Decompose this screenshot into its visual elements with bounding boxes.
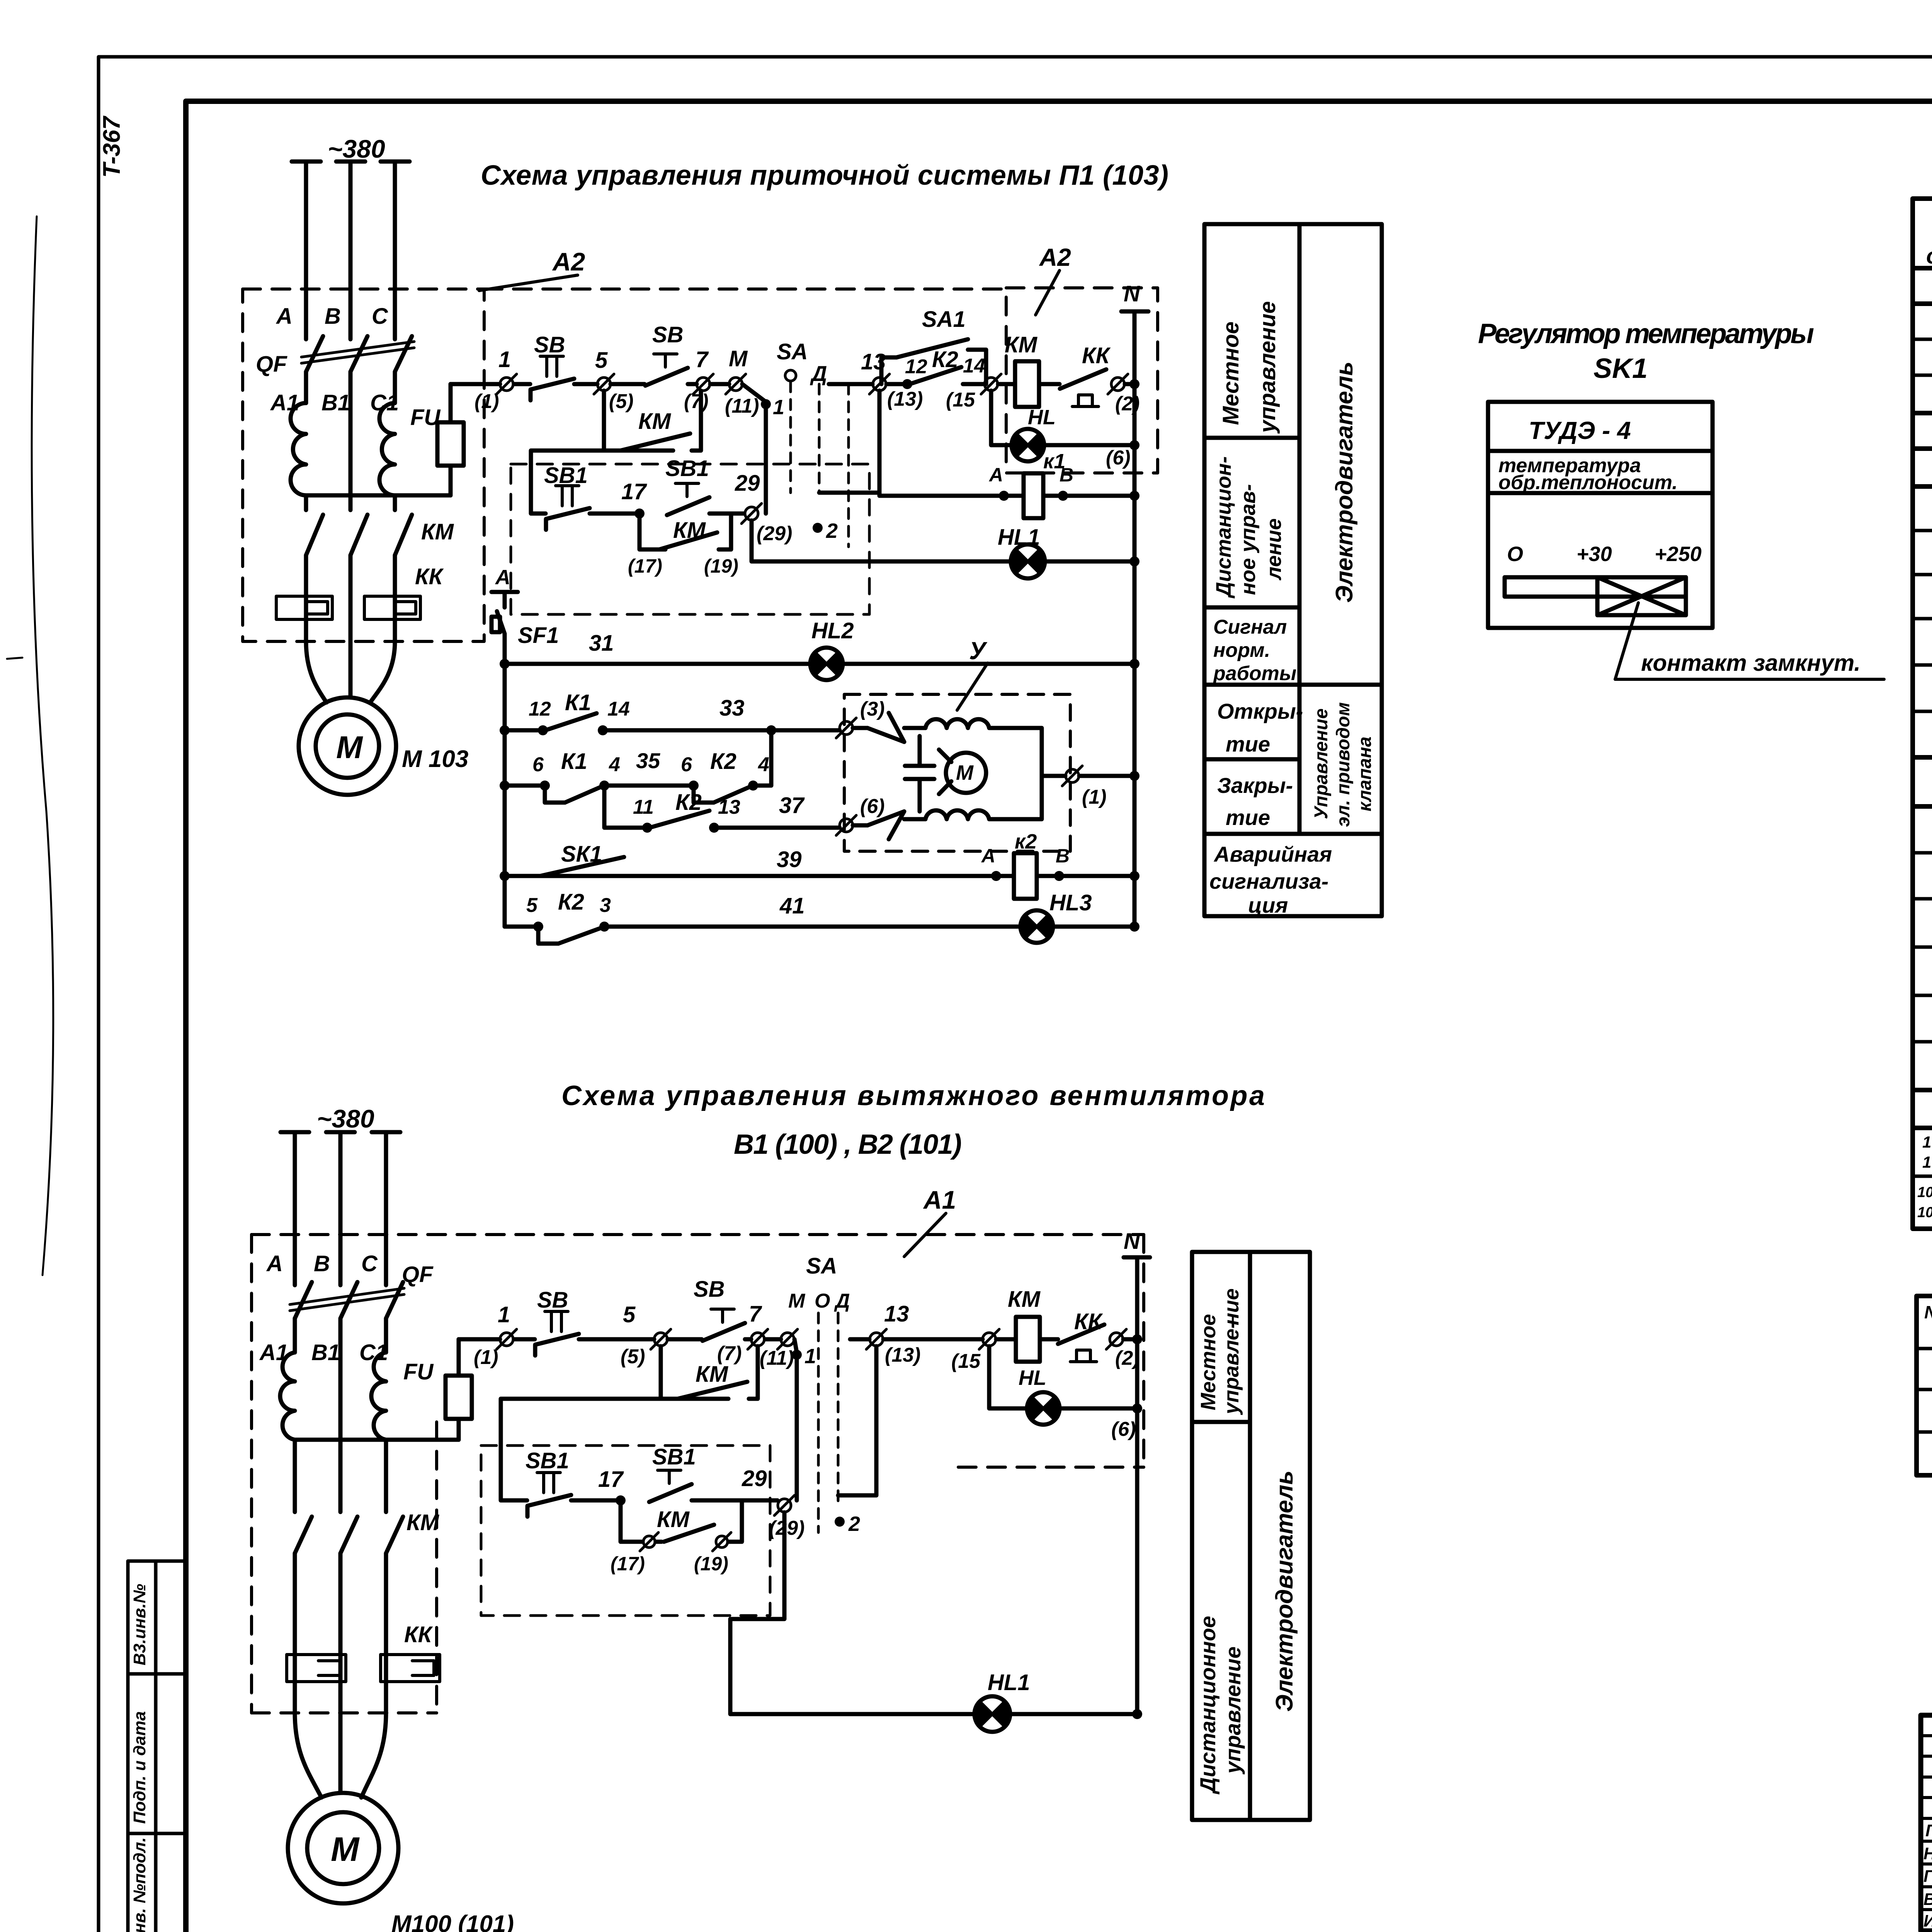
svg-text:В1: В1 (311, 1340, 340, 1365)
svg-text:N приво-: N приво- (1924, 1302, 1932, 1322)
svg-text:13: 13 (861, 349, 886, 374)
PKU post dashed outline (511, 464, 869, 614)
svg-text:(6): (6) (1111, 1418, 1136, 1440)
remote control feed wire (531, 451, 604, 514)
scale slider bar (1505, 577, 1686, 615)
svg-text:7: 7 (749, 1301, 762, 1327)
svg-text:13: 13 (718, 796, 740, 818)
svg-text:тие: тие (1226, 805, 1270, 830)
svg-text:обознач.: обознач. (1926, 243, 1932, 269)
svg-text:КМ: КМ (673, 518, 706, 543)
terminal 7 (bottom) (717, 1301, 768, 1365)
svg-text:Инв. №подл.: Инв. №подл. (130, 1837, 149, 1932)
svg-text:М: М (788, 1290, 806, 1312)
wire phase C vertical (bottom) (384, 1132, 388, 1713)
function table labels (supply) (1209, 301, 1375, 917)
svg-text:КМ: КМ (657, 1507, 690, 1532)
svg-text:КМ: КМ (638, 409, 672, 434)
wire (1039, 382, 1060, 386)
svg-text:SА1: SА1 (922, 307, 966, 332)
fuse FU (437, 384, 464, 495)
label FU (bottom) (403, 1359, 434, 1384)
svg-text:Подп. и дата: Подп. и дата (130, 1711, 149, 1824)
svg-text:В3.инв.№: В3.инв.№ (130, 1584, 149, 1665)
contact closed label (1641, 650, 1861, 676)
wire (998, 382, 1015, 386)
terminal 13 (861, 349, 923, 410)
regulator SK1 body (1488, 402, 1713, 628)
svg-text:К2: К2 (675, 790, 702, 815)
contactor coil KM (1005, 332, 1039, 407)
selector SA contact (777, 339, 827, 386)
wire row 37 K2 contact (604, 786, 840, 833)
svg-text:7: 7 (696, 347, 709, 372)
svg-text:Откры-: Откры- (1217, 699, 1303, 723)
thermal relay KK contact (bottom) (1058, 1309, 1104, 1362)
svg-text:А: А (981, 845, 995, 867)
svg-text:М: М (331, 1830, 360, 1868)
svg-text:К2: К2 (710, 749, 736, 774)
svg-text:(15: (15 (951, 1350, 981, 1372)
svg-text:КМ: КМ (406, 1510, 440, 1535)
label A1 with leader (904, 1185, 956, 1257)
svg-text:SВ: SВ (694, 1277, 725, 1302)
svg-text:Гл.спеч.: Гл.спеч. (1923, 1867, 1932, 1886)
pushbutton SB1 start (NO) (665, 456, 744, 515)
control box A1 dashed outline (252, 1235, 1144, 1713)
svg-text:6: 6 (532, 753, 544, 776)
motor leads (bottom) (295, 1713, 386, 1798)
svg-text:КМ: КМ (421, 519, 454, 544)
terminal (2) (1108, 374, 1140, 415)
contactor KM aux bypass contact (628, 514, 738, 577)
actuator lower limit contact (853, 811, 904, 839)
svg-text:ное управ-: ное управ- (1236, 484, 1260, 595)
small dashed box A2 (coil section) (1006, 288, 1158, 473)
svg-text:А: А (495, 566, 510, 589)
thermal relay KK heater phase C (364, 596, 420, 619)
svg-text:SВ1: SВ1 (665, 456, 709, 481)
svg-text:M100 (101): M100 (101) (391, 1911, 514, 1932)
svg-text:SF1: SF1 (518, 623, 559, 648)
node labels A B C (bottom) (266, 1251, 378, 1276)
terminal (2) (bottom) (1106, 1329, 1142, 1369)
svg-text:М: М (336, 730, 363, 765)
SA dashed position lines (791, 382, 849, 547)
svg-text:В: В (325, 304, 341, 329)
pushbutton SB start NO (bottom) (694, 1277, 745, 1341)
wire row 41 with lamp HL3 (505, 876, 1139, 944)
wire row 33 open circuit (505, 690, 840, 735)
svg-text:обр.теплоносит.: обр.теплоносит. (1498, 471, 1678, 494)
remote feed wire (bottom) (501, 1399, 661, 1500)
svg-text:Схема управления вытяжного: Схема управления вытяжного вентилятора (561, 1080, 1265, 1111)
svg-text:41: 41 (779, 893, 805, 918)
svg-text:FU: FU (403, 1359, 434, 1384)
node 17 (621, 479, 647, 519)
svg-text:КК: КК (415, 564, 444, 589)
svg-text:Местное: Местное (1218, 321, 1243, 425)
svg-text:М: М (729, 346, 748, 371)
motor M100(101) (288, 1793, 398, 1903)
svg-text:Электродвигатель: Электродвигатель (1331, 362, 1358, 603)
phase feed ticks (bottom) (281, 1130, 400, 1134)
pushbutton SB stop (NC) (531, 332, 574, 400)
svg-text:QF: QF (256, 352, 287, 377)
svg-text:(29): (29) (769, 1517, 804, 1539)
svg-text:37: 37 (779, 793, 805, 818)
relay contact K2 (NO) row1 (886, 347, 985, 389)
wire (571, 1498, 617, 1503)
svg-text:SВ1: SВ1 (526, 1448, 569, 1473)
wire phase B vertical (349, 162, 353, 641)
svg-text:29: 29 (742, 1466, 767, 1491)
thermal relay KK heater phase C (bottom) (381, 1655, 440, 1682)
svg-text:1: 1 (498, 347, 511, 372)
label KM main (bottom) (406, 1510, 440, 1535)
contact closed leader (1615, 603, 1884, 679)
contactor KM bypass contact (bottom) (611, 1500, 742, 1575)
svg-text:1: 1 (773, 396, 784, 419)
svg-text:103,SВ1: 103,SВ1 (1922, 1133, 1932, 1151)
label FU (410, 405, 441, 430)
thermal relay KK heater phase A (bottom) (287, 1655, 346, 1682)
title block inner grid (1921, 1715, 1932, 1931)
lamp HL1 row (bottom) (730, 1512, 1142, 1732)
circuit breaker QF poles (306, 336, 412, 372)
terminal 1 (bottom) (474, 1302, 517, 1369)
label M103 (402, 746, 468, 772)
svg-text:А: А (988, 464, 1003, 486)
svg-text:НL3: НL3 (1049, 890, 1092, 915)
function table (exhaust scheme) (1192, 1252, 1310, 1820)
svg-text:T-367: T-367 (99, 116, 125, 178)
scan artifact curve at far left (7, 216, 53, 1275)
svg-text:А: А (276, 304, 293, 329)
svg-text:SА: SА (806, 1253, 837, 1279)
svg-text:НL1: НL1 (998, 525, 1040, 550)
terminal 29 (735, 471, 792, 545)
svg-text:3: 3 (600, 894, 611, 917)
svg-text:(15: (15 (946, 389, 975, 411)
svg-text:В1 (100) , В2 (101): В1 (100) , В2 (101) (734, 1129, 962, 1160)
svg-text:17: 17 (621, 479, 647, 504)
net ~380 supply label (bottom) (317, 1104, 374, 1133)
thermal relay KK heater phase A (276, 596, 332, 619)
lamp HL local (991, 391, 1139, 469)
element list header (1926, 217, 1932, 269)
drives table grid (1917, 1296, 1932, 1475)
svg-text:В1: В1 (321, 390, 350, 415)
svg-text:(13): (13) (887, 388, 923, 410)
wire from 13 branch (bottom) (838, 1346, 876, 1495)
svg-text:норм.: норм. (1213, 639, 1270, 662)
pushbutton SB1 stop NC (bottom) (526, 1448, 571, 1517)
terminal (11) (bottom) (760, 1329, 798, 1369)
pushbutton SB1 start NO (bottom) (649, 1444, 777, 1502)
svg-text:Аварийная: Аварийная (1213, 842, 1332, 866)
label QF (256, 352, 287, 377)
node 17 (bottom) (598, 1467, 626, 1505)
terminal 5 (594, 348, 634, 413)
wire (574, 382, 597, 386)
thermal relay KK contact (1060, 343, 1111, 406)
svg-text:О: О (815, 1290, 830, 1312)
label SA1 (922, 307, 966, 332)
wire (688, 382, 697, 386)
svg-text:управление: управление (1221, 1646, 1245, 1775)
svg-text:29: 29 (735, 471, 760, 496)
svg-text:(17): (17) (611, 1553, 645, 1575)
svg-text:эл. приводом: эл. приводом (1333, 702, 1354, 827)
wire to N (1125, 379, 1139, 389)
document code T-367 rotated (99, 116, 125, 178)
svg-text:Нач. ЭТО: Нач. ЭТО (1923, 1844, 1932, 1863)
svg-text:(7): (7) (684, 390, 709, 413)
svg-text:А: А (266, 1251, 283, 1276)
svg-text:14: 14 (963, 355, 985, 377)
contactor coil KM (bottom) (996, 1287, 1058, 1362)
terminal 5 (bottom) (621, 1302, 671, 1368)
svg-text:НL: НL (1028, 406, 1056, 429)
actuator upper limit contact (853, 713, 904, 742)
node 1 junction (742, 384, 784, 514)
svg-text:ГАП: ГАП (1925, 1821, 1932, 1840)
svg-text:Д: Д (810, 361, 827, 386)
svg-text:А1: А1 (270, 390, 299, 415)
svg-text:(1): (1) (474, 1346, 498, 1369)
svg-text:(3): (3) (860, 698, 885, 720)
svg-text:31: 31 (589, 631, 614, 656)
svg-text:4: 4 (758, 753, 769, 776)
row PKU15-231 (1917, 1184, 1932, 1221)
svg-text:ление: ление (1262, 518, 1286, 581)
svg-text:О: О (1507, 543, 1523, 566)
terminal (15) (946, 374, 1001, 411)
svg-text:M 103: M 103 (402, 746, 468, 772)
element list table grid (1913, 199, 1932, 1229)
svg-text:НL1: НL1 (988, 1670, 1030, 1695)
svg-text:100 НL1, 101 НL1: 100 НL1, 101 НL1 (1917, 1204, 1932, 1221)
pushbutton SB start (NO) (645, 322, 688, 386)
selector switch SA1 bypass branch (881, 339, 986, 384)
wire phase A vertical (304, 162, 308, 641)
svg-text:N: N (1124, 281, 1140, 306)
wire (514, 1337, 535, 1342)
actuator lower winding (904, 776, 1042, 819)
svg-text:А2: А2 (552, 247, 585, 276)
svg-text:33: 33 (719, 696, 745, 721)
svg-text:НL: НL (1019, 1366, 1046, 1389)
svg-text:~380: ~380 (328, 134, 385, 163)
label A2 with leader (479, 247, 585, 291)
scale labels (1507, 543, 1702, 566)
svg-text:(11): (11) (725, 395, 759, 417)
svg-text:К2: К2 (558, 889, 584, 915)
motor M103 (299, 697, 396, 795)
svg-text:2: 2 (848, 1512, 860, 1536)
contactor KM main contacts (306, 515, 412, 555)
svg-text:тие: тие (1226, 732, 1270, 756)
node 2 junction (813, 519, 838, 543)
svg-text:(6): (6) (1106, 447, 1131, 469)
svg-text:управление: управление (1255, 301, 1280, 434)
pushbutton SB stop NC (bottom) (535, 1287, 579, 1355)
wire (745, 1337, 751, 1342)
svg-text:А1: А1 (923, 1185, 956, 1214)
contactor KM main contacts (bottom) (295, 1517, 403, 1553)
svg-text:(5): (5) (621, 1345, 645, 1368)
svg-text:5: 5 (623, 1302, 636, 1327)
svg-text:SА: SА (777, 339, 808, 364)
label U actuator leader (957, 637, 988, 710)
svg-text:КК: КК (404, 1622, 433, 1647)
title of supply system scheme (481, 160, 1168, 191)
node 1 junction (bottom) (792, 1339, 816, 1500)
svg-text:(1): (1) (474, 390, 499, 413)
motor leads (306, 641, 395, 702)
svg-text:SВ: SВ (534, 332, 565, 357)
svg-text:14: 14 (607, 698, 630, 720)
svg-text:Сигнал: Сигнал (1213, 616, 1287, 638)
terminal 1 (474, 347, 517, 413)
svg-text:С: С (361, 1251, 378, 1276)
svg-text:К2: К2 (932, 347, 958, 372)
svg-text:К1: К1 (561, 749, 587, 774)
left margin stamp table (128, 1561, 186, 1932)
drives table header (1924, 1299, 1932, 1345)
svg-text:SВ1: SВ1 (652, 1444, 696, 1469)
label k1 (1043, 450, 1065, 473)
svg-text:Управление: Управление (1311, 708, 1332, 819)
svg-text:2: 2 (826, 519, 838, 543)
svg-text:(17): (17) (628, 555, 662, 577)
terminal (1) (1042, 766, 1139, 808)
wire 13 to KM coil (883, 1337, 983, 1342)
wire SA to 13 (829, 382, 872, 386)
svg-text:Закры-: Закры- (1217, 773, 1293, 798)
QF mechanical link (bottom) (290, 1288, 404, 1311)
signatures column labels (1923, 1821, 1932, 1931)
svg-text:~380: ~380 (317, 1104, 374, 1133)
svg-text:Инжен.: Инжен. (1923, 1912, 1932, 1930)
lamp HL local (bottom) (989, 1346, 1142, 1440)
svg-text:SK1: SK1 (1594, 353, 1648, 384)
svg-text:КМ: КМ (1005, 332, 1038, 357)
neutral line N (bottom) (1124, 1229, 1150, 1714)
QF trip coil phase C (379, 403, 395, 495)
phase feed ticks (292, 160, 410, 164)
svg-text:SК1: SК1 (561, 842, 602, 867)
svg-text:КК: КК (1082, 343, 1111, 368)
svg-text:1: 1 (498, 1302, 510, 1327)
node labels A B C (276, 304, 388, 329)
contactor KM self-hold contact (bottom) (661, 1346, 758, 1399)
label KK (heaters) (415, 564, 444, 589)
svg-text:1: 1 (804, 1345, 816, 1368)
circuit breaker QF poles (bottom) (295, 1282, 403, 1318)
net ~380 supply label (328, 134, 385, 163)
svg-text:работы: работы (1213, 662, 1296, 685)
selector SA labels (bottom) (788, 1253, 850, 1312)
row PKU15-131 (1922, 1133, 1932, 1171)
title block outline (1921, 1715, 1932, 1931)
svg-text:(11): (11) (760, 1347, 794, 1369)
wire row 35 closing chain (505, 730, 771, 803)
terminal (6) (836, 795, 885, 835)
terminal (3) (836, 698, 885, 738)
svg-text:+250: +250 (1655, 543, 1702, 566)
svg-text:103 НL1: 103 НL1 (1922, 1153, 1932, 1171)
regulator heading (1478, 318, 1814, 384)
svg-text:Вед.инж.: Вед.инж. (1923, 1890, 1932, 1909)
bottom bus wire (306, 493, 451, 498)
wire (579, 1337, 654, 1342)
actuator upper winding (904, 719, 1042, 776)
PKU post dashed outline (bottom) (481, 1446, 770, 1616)
svg-text:35: 35 (636, 748, 660, 773)
svg-text:12: 12 (529, 698, 551, 720)
node 2 junction (bottom) (835, 1512, 860, 1536)
function table (supply scheme) (1204, 224, 1382, 916)
svg-text:Дистанцион-: Дистанцион- (1212, 456, 1235, 599)
terminal (15) (bottom) (951, 1329, 999, 1372)
svg-text:сигнализа-: сигнализа- (1209, 869, 1328, 893)
contactor KM aux self-hold contact (604, 391, 701, 451)
wire (710, 382, 729, 386)
neutral line N (1121, 281, 1148, 927)
svg-text:6: 6 (681, 753, 692, 776)
svg-text:к1: к1 (1043, 450, 1065, 473)
wire (590, 512, 637, 516)
terminal 7 (684, 347, 713, 413)
svg-text:(19): (19) (704, 555, 738, 577)
svg-text:4: 4 (609, 753, 620, 776)
wire (765, 1337, 781, 1342)
QF trip coil phase A (291, 403, 306, 495)
svg-text:Регулятор температуры: Регулятор температуры (1478, 318, 1814, 349)
wire (611, 382, 645, 386)
svg-text:КК: КК (1074, 1309, 1103, 1334)
svg-text:Схема управления приточной: Схема управления приточной системы П1 (1… (481, 160, 1168, 191)
node labels A1 B1 C1 (bottom) (259, 1340, 388, 1365)
svg-text:В: В (1056, 845, 1070, 867)
svg-text:(1): (1) (1082, 786, 1107, 808)
svg-text:В: В (314, 1251, 330, 1276)
wire (514, 382, 530, 386)
terminal 13 (bottom) (850, 1301, 920, 1366)
QF trip coil phase A (bottom) (280, 1352, 295, 1440)
svg-text:(29): (29) (757, 522, 792, 545)
svg-text:SВ1: SВ1 (544, 463, 588, 488)
wire row 1 feed (451, 382, 500, 386)
terminal 29 (bottom) (742, 1466, 804, 1539)
svg-text:SВ: SВ (537, 1287, 568, 1313)
svg-text:N: N (1124, 1229, 1140, 1254)
svg-text:ТУДЭ - 4: ТУДЭ - 4 (1529, 417, 1631, 444)
label A2 with leader (coil box) (1036, 243, 1071, 315)
wire row 31 with lamp HL2 (505, 618, 1139, 680)
control bus vertical (500, 634, 510, 927)
lamp HL1 row (752, 520, 1139, 578)
svg-text:К1: К1 (565, 690, 591, 715)
regulator function label (1498, 454, 1678, 494)
svg-text:НL2: НL2 (811, 618, 854, 643)
regulator type label (1529, 417, 1631, 444)
svg-text:13: 13 (884, 1301, 909, 1327)
wire from terminal 13 down (819, 391, 879, 496)
svg-text:С: С (372, 304, 388, 329)
